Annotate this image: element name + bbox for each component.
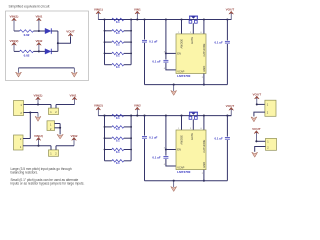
svg-text:0.1: 0.1 [116,65,120,69]
wire ground rail [145,180,228,182]
ground symbol (J4) [252,152,258,157]
wire input rail VIN(1) to VIN1 and on to ideal-diode circuit [98,19,231,21]
wire CATHODE pin stub [203,18,205,20]
svg-text:0.1 uF: 0.1 uF [149,39,158,43]
wire JP1 pin stubs [50,105,52,109]
wire ladder left rail [104,20,106,65]
svg-text:GATE: GATE [190,37,194,44]
svg-text:0.1: 0.1 [116,42,120,46]
svg-text:0.1: 0.1 [116,54,120,58]
node JP2 ground junction [59,127,61,129]
op-amp-style IC body U2 LM74700 (ideal diode controller) [176,130,206,170]
wire resistor to node VIN2 [34,50,39,52]
diode D2 (ideal diode channel 2) [45,49,51,54]
wire JP1 pin2 to VIN1 flag [56,104,75,106]
resistor R2 0.1 (balancing) [105,30,112,32]
resistor R6 0.1 (balancing) [105,115,112,117]
ground symbol [173,181,175,187]
mosfet Q1 (external ideal-diode MOSFET) [189,15,198,17]
svg-text:LM74700: LM74700 [177,170,190,174]
wire rail to VOUT flag [227,115,231,117]
wire output bus (diode cathodes) [57,31,59,51]
svg-text:0.1: 0.1 [116,139,120,143]
svg-text:0.1: 0.1 [116,150,120,154]
resistor R4 0.1 (balancing) [105,52,112,54]
svg-text:VIN1: VIN1 [70,93,77,97]
wire J3 pin2 to ground [254,112,265,116]
connector J4 (VOUT small pads) [266,138,277,150]
svg-text:0.1: 0.1 [116,161,120,165]
resistor R9 0.1 (balancing) [105,149,112,151]
jumper JP1 (channel 1 resistor bypass) [49,108,59,114]
ground symbol (J3) [251,117,257,122]
wire VIN1 to diode D1 [39,30,45,32]
wire ladder right rail [130,116,132,161]
svg-text:0.1 uF: 0.1 uF [214,137,223,141]
wire JP2 pin stubs to ground [55,123,61,125]
resistor 0.02 (channel 2 equivalent) [20,50,34,53]
ground symbol (J1) [37,113,39,117]
wire EN tie to anode rail [165,18,167,20]
resistor R5 0.1 (balancing) [105,64,112,66]
ground (equivalent circuit, output side) [73,68,75,73]
wire J4 pin2 to ground [255,147,266,152]
svg-text:0.1: 0.1 [116,116,120,120]
wire EN pin [166,52,176,54]
svg-text:0.02: 0.02 [24,33,30,37]
svg-text:balancing resistors.: balancing resistors. [11,171,39,175]
svg-text:0.1 uF: 0.1 uF [149,136,158,140]
resistor R7 0.1 (balancing) [105,126,112,128]
svg-text:GATE: GATE [190,133,194,140]
node J3 VOUT junction [256,103,258,105]
resistor 0.02 (channel 1 equivalent) [20,30,34,33]
wire GND pin stub [203,74,205,85]
wire VIN2 to diode D2 [39,50,45,52]
connector J2 (VIN(2) large input pads) [14,135,24,150]
capacitor C1 0.1 uF (input bypass) [143,18,145,20]
wire ladder right rail [130,20,132,65]
node EN junction [165,52,167,54]
diode D1 (ideal diode channel 1) [45,28,51,33]
resistor R8 0.1 (balancing) [105,137,112,139]
ground symbol (JP2) [57,134,63,139]
wire input rail VIN(2) to VIN2 and on to ideal-diode circuit [98,115,231,117]
wire VCAP pin [166,63,176,70]
svg-text:inputs or as resistor bypass j: inputs or as resistor bypass jumpers for… [11,182,85,186]
wire GATE pin stub [192,23,194,34]
svg-text:0.1: 0.1 [116,20,120,24]
wire J2 pin2 ground [23,138,30,140]
node ground junction [173,180,175,182]
wire ground rail (equivalent circuit) [19,67,75,69]
wire VOUT to J4 pin1 [256,140,265,142]
wire EN tie to anode rail [165,115,167,117]
wire ANODE pin stub [180,115,182,117]
resistor R10 0.1 (balancing) [105,160,112,162]
wire rail to VOUT flag [227,19,231,21]
svg-text:VCAP: VCAP [177,69,184,73]
svg-text:ANODE: ANODE [180,135,184,145]
svg-text:CATHODE: CATHODE [202,139,206,152]
svg-text:EN: EN [177,52,181,56]
wire VOUT to J3 pin1 [257,103,265,105]
capacitor C3 0.1 uF (output bypass) [226,18,228,20]
svg-text:0.1: 0.1 [116,127,120,131]
ground (equivalent circuit, input side) [18,68,20,73]
svg-text:GND: GND [202,66,206,72]
connector J1 (VIN(1) large input pads) [14,101,24,116]
node J4 VOUT junction [255,140,257,142]
jumper JP3 (channel 2 resistor bypass) [49,150,59,156]
svg-text:VOUT: VOUT [226,8,235,12]
resistor R3 0.1 (balancing) [105,41,112,43]
wire J1 pin2 ground [24,112,39,114]
wire GATE pin stub [192,119,194,130]
wire VIN(2) to resistor [14,50,20,52]
capacitor C5 0.1 uF (VCAP charge pump) [165,150,167,156]
wire JP3 pin stubs [50,146,52,150]
svg-text:0.02: 0.02 [24,54,30,58]
wire J2 pin1 to jumper JP3 [23,145,51,147]
node ground junction to J2 [29,111,31,113]
wire D2 cathode to output bus [51,50,58,52]
wire shared ground J1 pin2 to J2 pin2 [29,113,31,139]
svg-text:0.1 uF: 0.1 uF [214,41,223,45]
node VIN2 junction [38,50,40,52]
ground symbol [173,85,175,91]
node ground junction [173,84,175,86]
wire ground rail [145,84,228,86]
mosfet Q2 (external ideal-diode MOSFET) [189,111,198,113]
node EN junction [165,148,167,150]
wire GND pin stub [203,170,205,181]
wire VCAP pin [166,159,176,166]
svg-text:ANODE: ANODE [180,39,184,49]
svg-text:0.1 uF: 0.1 uF [152,156,161,160]
wire D1 cathode to output bus [51,30,58,32]
svg-text:GND: GND [202,162,206,168]
equivalent-circuit box frame [6,11,89,81]
wire JP3 pin2 to VIN2 flag [56,145,74,147]
node VIN(1) junction [37,103,39,105]
svg-text:0.1 uF: 0.1 uF [152,60,161,64]
svg-text:0.1: 0.1 [116,31,120,35]
connector JP2 (ground pads) [47,121,55,131]
wire CATHODE pin stub [203,115,205,117]
op-amp-style IC body U1 LM74700 (ideal diode controller) [176,34,206,74]
wire J1 pin1 to jumper JP1 [24,104,52,106]
svg-text:VOUT: VOUT [226,104,235,108]
wire EN pin [166,149,176,151]
capacitor C4 0.1 uF (input bypass) [143,115,145,117]
svg-text:Simplified equivalent circuit: Simplified equivalent circuit [9,5,50,9]
svg-text:CATHODE: CATHODE [202,43,206,56]
wire VIN(1) to resistor [14,30,20,32]
wire ladder left rail [104,116,106,161]
svg-text:EN: EN [177,148,181,152]
node VOUT junction on bus [57,42,59,44]
connector J3 (VOUT large pads) [265,100,276,116]
capacitor C2 0.1 uF (VCAP charge pump) [165,53,167,59]
resistor R1 0.1 (balancing) [105,19,112,21]
wire ANODE pin stub [180,18,182,20]
node VIN(2) junction [37,145,39,147]
node VIN1 junction [38,30,40,32]
wire bus to VOUT flag [58,37,71,43]
capacitor C6 0.1 uF (output bypass) [226,115,228,117]
svg-text:LM74700: LM74700 [177,74,190,78]
wire resistor to node VIN1 [34,30,39,32]
svg-text:VCAP: VCAP [177,166,184,170]
